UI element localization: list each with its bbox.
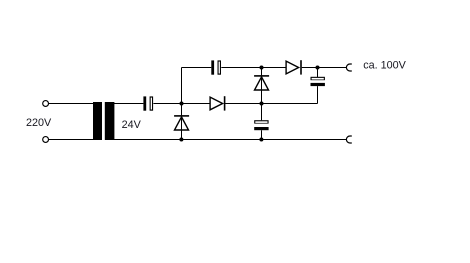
diode D3 triangle bbox=[255, 77, 269, 90]
wire node A up to top rail bbox=[181, 68, 183, 104]
wire primary bottom bbox=[49, 139, 94, 141]
wire node D to C3 bbox=[261, 104, 263, 121]
capacitor C1 plate right bbox=[150, 96, 154, 110]
wire primary top bbox=[49, 103, 94, 105]
transformer T1 secondary winding bbox=[105, 102, 115, 140]
node B junction bbox=[260, 66, 264, 70]
capacitor C4 plate top bbox=[311, 77, 325, 80]
node E junction bbox=[179, 138, 183, 142]
wire node B through D3 to node D bbox=[261, 68, 263, 104]
capacitor C3 plate bottom bbox=[254, 127, 268, 130]
wire secondary top bbox=[114, 103, 143, 105]
wire C4 down to middle rail bbox=[317, 86, 319, 103]
terminal J3 (output, top) bbox=[346, 64, 351, 71]
diode D4 triangle bbox=[286, 61, 299, 74]
node A junction bbox=[180, 102, 184, 106]
capacitor C2 plate right bbox=[218, 60, 222, 74]
capacitor C3 plate top bbox=[254, 120, 268, 123]
diode D1 cathode bar bbox=[174, 115, 189, 117]
svg-text:220V: 220V bbox=[26, 117, 52, 129]
diode D2 triangle bbox=[210, 97, 223, 110]
terminal J1 (220V input, top) bbox=[43, 101, 49, 107]
node F junction bbox=[259, 138, 263, 142]
diode D3 cathode bar bbox=[254, 75, 269, 77]
diode D2 cathode bar bbox=[224, 96, 226, 110]
diode D4 cathode bar bbox=[300, 60, 302, 74]
terminal J4 (output, bottom) bbox=[346, 136, 351, 143]
svg-text:24V: 24V bbox=[122, 119, 142, 131]
wire node C to C4 bbox=[317, 68, 319, 78]
wire top rail left bbox=[182, 67, 212, 69]
capacitor C1 plate left bbox=[143, 96, 146, 110]
wire node A through D1 to bottom rail bbox=[181, 104, 183, 140]
terminal J2 (220V input, bottom) bbox=[43, 137, 49, 143]
wire bottom rail bbox=[114, 139, 347, 141]
svg-text:ca. 100V: ca. 100V bbox=[363, 59, 406, 71]
node D junction bbox=[260, 102, 264, 106]
capacitor C4 plate bottom bbox=[311, 83, 325, 86]
diode D1 triangle bbox=[175, 117, 189, 130]
node C junction bbox=[316, 66, 320, 70]
wire C1 to node A bbox=[153, 103, 209, 105]
wire top rail middle bbox=[221, 67, 285, 69]
wire C3 to bottom rail bbox=[261, 130, 263, 139]
transformer T1 primary winding bbox=[93, 102, 102, 140]
capacitor C2 plate left bbox=[211, 60, 214, 74]
wire top rail right bbox=[302, 67, 347, 69]
wire middle rail right bbox=[225, 103, 317, 105]
